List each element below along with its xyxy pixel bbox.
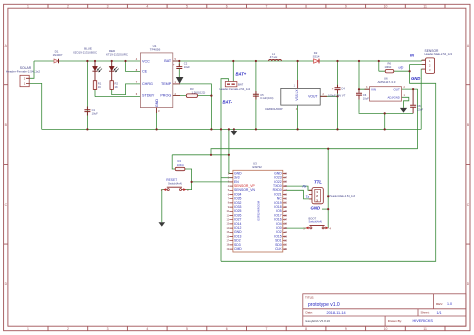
wire solar pin1 down: [29, 83, 42, 129]
svg-text:C2: C2: [184, 62, 188, 66]
svg-text:C1: C1: [92, 108, 96, 112]
svg-text:10uF: 10uF: [92, 112, 98, 116]
svg-text:PROG: PROG: [160, 94, 171, 98]
svg-text:u/p: u/p: [399, 66, 404, 70]
svg-text:0.1uF(104): 0.1uF(104): [260, 96, 273, 100]
svg-text:CE: CE: [142, 70, 148, 74]
svg-text:GND: GND: [155, 99, 159, 108]
ground (C2/TEMP): [176, 77, 184, 84]
svg-text:9: 9: [345, 327, 347, 331]
wire ground bus to rail: [384, 113, 386, 129]
svg-text:1K: 1K: [115, 85, 118, 89]
ground (main rail): [231, 129, 238, 135]
capacitor C8: [410, 89, 423, 113]
svg-text:AMS1117-3.3: AMS1117-3.3: [378, 80, 396, 84]
wire R4 right to EN: [185, 169, 192, 182]
svg-text:BAT+: BAT+: [236, 71, 247, 76]
resistor R2: [110, 81, 118, 90]
svg-text:10uF: 10uF: [363, 97, 369, 101]
svg-text:10uF: 10uF: [184, 65, 190, 69]
wire reset switch pin1 to gnd: [162, 190, 165, 223]
svg-text:TEMP: TEMP: [161, 82, 172, 86]
svg-text:BAT: BAT: [238, 83, 244, 87]
svg-text:EasyEDA V5.8.20: EasyEDA V5.8.20: [306, 319, 331, 323]
svg-text:1: 1: [27, 327, 29, 331]
wire BAT+ riser: [232, 61, 234, 82]
wire U6 ADJ to ground: [402, 97, 409, 108]
svg-text:prototype v1.0: prototype v1.0: [308, 302, 340, 308]
wire PROG-R3: [173, 95, 212, 97]
svg-text:KT19-2132SURC: KT19-2132SURC: [106, 53, 128, 57]
wire CE riser: [126, 61, 141, 72]
svg-text:11: 11: [423, 5, 427, 9]
svg-text:ESP32-WROOM: ESP32-WROOM: [256, 201, 260, 220]
svg-text:OUT: OUT: [393, 87, 400, 91]
diode D2: [313, 51, 320, 63]
svg-text:1: 1: [27, 5, 29, 9]
svg-text:C5: C5: [260, 93, 264, 97]
wire B 3v3 to ESP32: [172, 154, 229, 156]
svg-text:Sheet:: Sheet:: [421, 311, 430, 315]
wire 3v3 to pin2: [221, 177, 233, 179]
svg-text:RESET: RESET: [166, 178, 177, 182]
svg-text:1.0: 1.0: [447, 302, 452, 306]
wire R4 left to wire B: [172, 155, 175, 169]
svg-text:2: 2: [67, 327, 69, 331]
svg-text:Date:: Date:: [306, 311, 314, 315]
svg-text:C4: C4: [341, 87, 345, 91]
svg-text:5: 5: [186, 327, 188, 331]
svg-text:VOUT: VOUT: [308, 95, 317, 99]
capacitor C6: [356, 91, 369, 101]
wire 3v3 column down right: [417, 89, 419, 149]
capacitor C2: [173, 62, 191, 78]
svg-text:10: 10: [384, 5, 388, 9]
capacitor C5: [253, 91, 274, 100]
svg-text:C8: C8: [417, 104, 421, 108]
connector P4 TTL header: [309, 188, 356, 204]
svg-text:Rx: Rx: [303, 185, 307, 189]
switch BOOT: [303, 216, 331, 230]
wire boot column: [323, 149, 328, 228]
wire top rail right (U1 BAT to sensor pin1): [173, 59, 426, 62]
svg-text:Switch(4x4): Switch(4x4): [309, 219, 323, 223]
svg-text:Header-Male-2.54_1x3: Header-Male-2.54_1x3: [425, 52, 453, 56]
svg-text:Tx: Tx: [306, 195, 310, 199]
svg-text:SS14: SS14: [313, 54, 320, 58]
svg-text:+: +: [173, 62, 175, 66]
wire TTL gnd stub: [322, 208, 328, 210]
svg-text:VSS LX: VSS LX: [295, 89, 299, 101]
svg-text:HIVERICKS: HIVERICKS: [413, 319, 434, 323]
wire R6 top riser: [379, 61, 385, 71]
svg-text:47 uH: 47 uH: [270, 55, 277, 59]
connector P3 SENSOR: [422, 49, 453, 74]
svg-text:3: 3: [107, 327, 109, 331]
connector P2 BAT: [220, 82, 251, 92]
wire ESP32 GND pin1: [229, 129, 233, 173]
svg-text:Header-Female-2.54_1x2: Header-Female-2.54_1x2: [220, 87, 251, 91]
svg-text:1/1: 1/1: [437, 311, 442, 315]
resistor R6: [385, 61, 394, 73]
svg-text:10KΩ: 10KΩ: [177, 163, 184, 167]
svg-text:R1: R1: [98, 81, 102, 85]
svg-text:ADJ/GND: ADJ/GND: [388, 96, 400, 100]
wire LED1-R1-STDBY: [95, 89, 140, 96]
svg-text:7: 7: [265, 327, 267, 331]
LED D4 red: [106, 49, 128, 81]
svg-text:STDBY: STDBY: [142, 94, 155, 98]
wire analog ground bus under U6: [359, 112, 413, 113]
svg-text:R6: R6: [388, 61, 392, 65]
svg-text:REV:: REV:: [436, 302, 443, 306]
inductor L1: [269, 52, 282, 61]
svg-text:9: 9: [345, 5, 347, 9]
svg-text:GND: GND: [311, 205, 321, 210]
svg-text:+: +: [332, 86, 334, 90]
wire C4 branch: [337, 61, 339, 129]
wire U2 VSS down: [297, 105, 299, 129]
svg-text:1.2KΩ(122): 1.2KΩ(122): [192, 90, 206, 94]
svg-text:Header-Male-2.54_1x3: Header-Male-2.54_1x3: [330, 195, 356, 198]
svg-text:CE8301A50P: CE8301A50P: [265, 107, 283, 111]
svg-text:CMD: CMD: [234, 247, 242, 251]
wire ground rail: [42, 128, 422, 130]
svg-text:Header-Female-2.54_1x2: Header-Female-2.54_1x2: [6, 69, 41, 73]
svg-text:BAT-: BAT-: [223, 100, 233, 105]
svg-text:8: 8: [305, 327, 307, 331]
svg-text:VCC: VCC: [142, 60, 150, 64]
svg-text:10KΩ: 10KΩ: [385, 65, 392, 69]
svg-text:100uF 16V VT: 100uF 16V VT: [328, 94, 346, 98]
svg-text:3: 3: [107, 5, 109, 9]
svg-text:4: 4: [146, 5, 148, 9]
wire U2 LX riser: [297, 61, 299, 80]
resistor R1: [93, 81, 101, 90]
svg-text:7: 7: [265, 5, 267, 9]
svg-text:Switch(4x4): Switch(4x4): [168, 181, 182, 185]
wire reset switch pin2: [184, 182, 191, 190]
svg-text:TP4056: TP4056: [150, 47, 161, 51]
svg-text:1K: 1K: [98, 85, 101, 89]
wire TXD0 to Rx TTL pin1: [286, 186, 312, 190]
svg-text:2: 2: [67, 5, 69, 9]
svg-text:ESP32: ESP32: [253, 165, 263, 169]
svg-text:GND: GND: [411, 76, 420, 81]
wire C2 branch: [178, 61, 180, 66]
wire solar pin2 riser: [29, 61, 34, 78]
wire TEMP to ground riser: [173, 84, 212, 129]
capacitor C4: [328, 85, 346, 98]
switch RESET: [161, 178, 189, 192]
resistor R3: [186, 87, 205, 97]
svg-text:5: 5: [186, 5, 188, 9]
wire IO0 to boot switch: [286, 227, 306, 229]
capacitor C1: [84, 107, 98, 116]
svg-text:10: 10: [384, 327, 388, 331]
svg-text:2018-11-14: 2018-11-14: [327, 311, 346, 315]
svg-text:R4: R4: [178, 159, 182, 163]
ground (U6): [400, 108, 407, 113]
svg-text:22uF: 22uF: [417, 107, 423, 111]
regulator U2 CE8301A50P: [265, 80, 327, 111]
svg-text:Drawn By:: Drawn By:: [388, 319, 402, 323]
svg-text:1N4007: 1N4007: [53, 53, 63, 57]
svg-text:CHRG: CHRG: [142, 82, 153, 86]
svg-text:TITLE:: TITLE:: [305, 295, 314, 299]
wire U2 VOUT to C4: [320, 95, 337, 97]
svg-text:6: 6: [226, 327, 228, 331]
svg-text:BAT: BAT: [164, 59, 172, 63]
svg-text:CLK: CLK: [275, 247, 282, 251]
svg-text:6: 6: [226, 5, 228, 9]
wire EN pin3: [192, 181, 233, 183]
wire U6 OUT node: [402, 88, 418, 90]
svg-text:VIN: VIN: [371, 87, 376, 91]
svg-text:8: 8: [305, 5, 307, 9]
wire R6 to sensor pin2 net: [221, 65, 436, 262]
microcontroller U3 ESP32: [226, 161, 287, 252]
ground (reset switch): [159, 222, 166, 226]
wire RXD0 to Tx TTL pin3: [286, 190, 312, 199]
connector P1 SOLAR: [6, 66, 41, 87]
regulator U6 AMS1117-3.3: [365, 76, 406, 101]
wire BAT- riser and 3v3 column: [221, 79, 229, 262]
TITLE BLOCK: [303, 294, 466, 326]
LED D3 blue: [73, 47, 102, 81]
op-amp U1 TP4056: [136, 44, 180, 113]
svg-text:TTL: TTL: [314, 180, 322, 185]
svg-text:IN: IN: [410, 52, 414, 57]
svg-text:11: 11: [423, 327, 427, 331]
wire C5 branch: [255, 61, 257, 129]
svg-text:R2: R2: [115, 81, 119, 85]
wire top rail left (solar to U1 VCC): [34, 60, 140, 62]
wire C6 branch VIN: [359, 61, 370, 112]
wire sensor pin3 GND: [421, 69, 425, 129]
wire C1 branch: [86, 61, 88, 129]
wire U1 GND to rail: [156, 108, 158, 130]
resistor R4: [175, 159, 185, 171]
wire LED2-R2-CHRG jog: [112, 84, 141, 95]
wire A 3v3 horizontal: [211, 149, 418, 155]
svg-text:C6: C6: [363, 93, 367, 97]
diode D1: [53, 50, 63, 64]
svg-text:4: 4: [146, 327, 148, 331]
svg-text:XZO19-2131UBGC: XZO19-2131UBGC: [73, 50, 97, 54]
